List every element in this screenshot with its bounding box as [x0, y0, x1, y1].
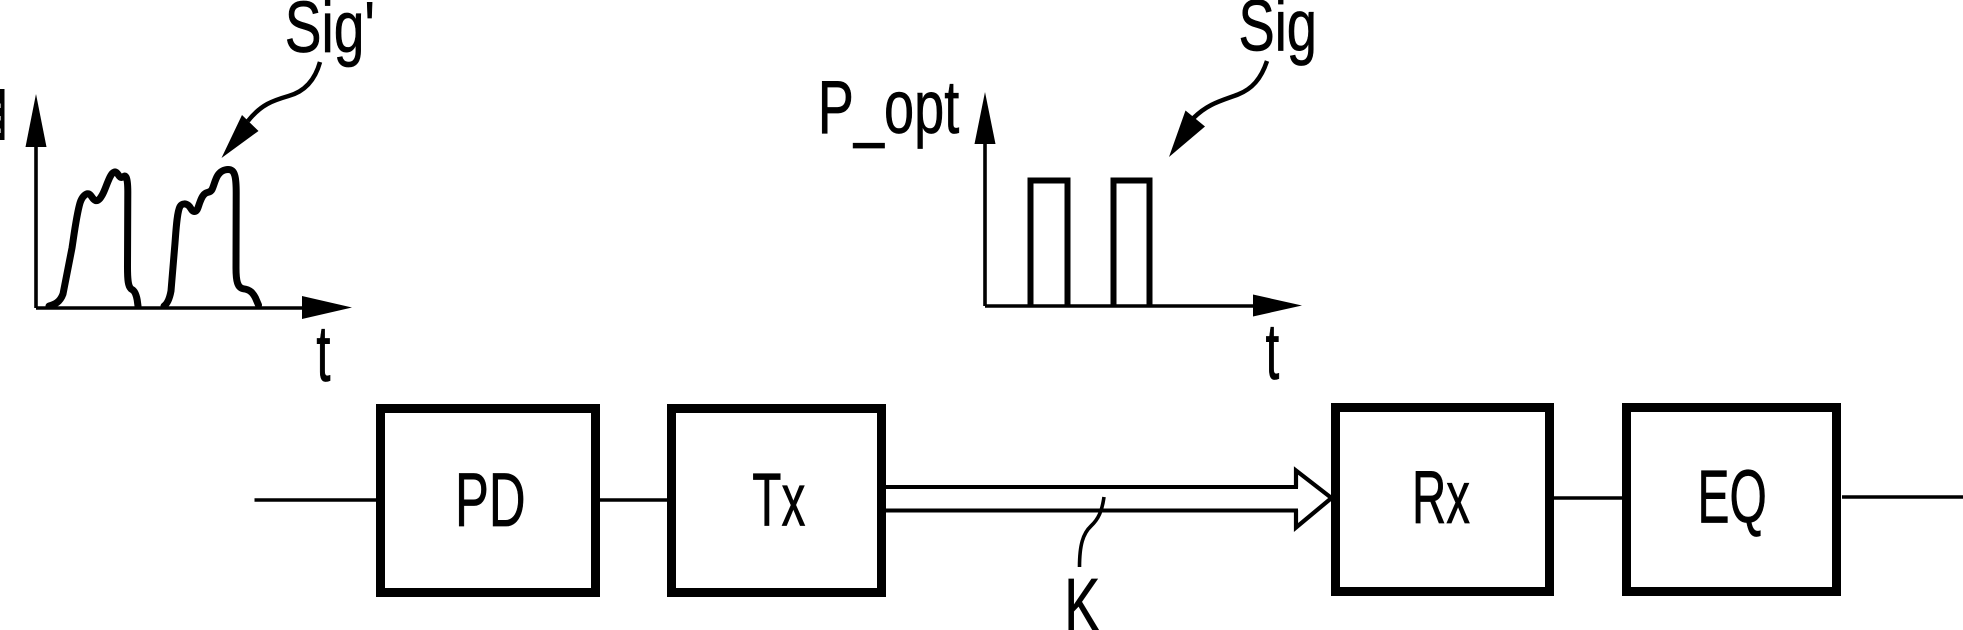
wire Rx to EQ [1550, 496, 1622, 500]
svg-text:t: t [1266, 308, 1280, 397]
svg-text:K: K [1064, 563, 1100, 630]
left graph: horizontal axis (time) [36, 296, 352, 319]
svg-text:PD: PD [455, 458, 526, 543]
wire PD to Tx [600, 498, 667, 502]
left graph: vertical axis [26, 94, 47, 308]
waveform Sig pulse 2 (rectangular) [1114, 181, 1150, 307]
block Tx [672, 409, 882, 593]
right graph: horizontal axis (time) [985, 295, 1302, 317]
svg-text:Rx: Rx [1412, 456, 1470, 540]
svg-text:Sig: Sig [1239, 0, 1317, 66]
block Rx [1336, 408, 1550, 592]
svg-text:Tx: Tx [752, 459, 805, 542]
svg-text:P_opt: P_opt [818, 65, 960, 149]
svg-text:Sig': Sig' [285, 0, 375, 68]
block diagram: right output lead wire [1842, 495, 1963, 499]
leader squiggle from link to label K [1080, 497, 1105, 567]
block EQ [1627, 408, 1837, 592]
waveform Sig' pulse 2 (noisy) [164, 170, 259, 307]
svg-text:t: t [316, 310, 330, 399]
optical link K: hollow arrow from Tx to Rx [886, 471, 1332, 528]
block diagram: left input lead wire [255, 498, 381, 502]
leader arrow from Sig' to waveform [222, 62, 321, 158]
waveform Sig pulse 1 (rectangular) [1031, 181, 1068, 307]
waveform Sig' pulse 1 (noisy) [49, 172, 138, 306]
left graph: clipped y-axis unit glyph at image edge [0, 89, 5, 140]
svg-text:EQ: EQ [1698, 456, 1767, 539]
leader arrow from Sig to pulses [1169, 61, 1267, 157]
right graph: vertical axis [975, 92, 996, 306]
block PD [381, 409, 596, 593]
